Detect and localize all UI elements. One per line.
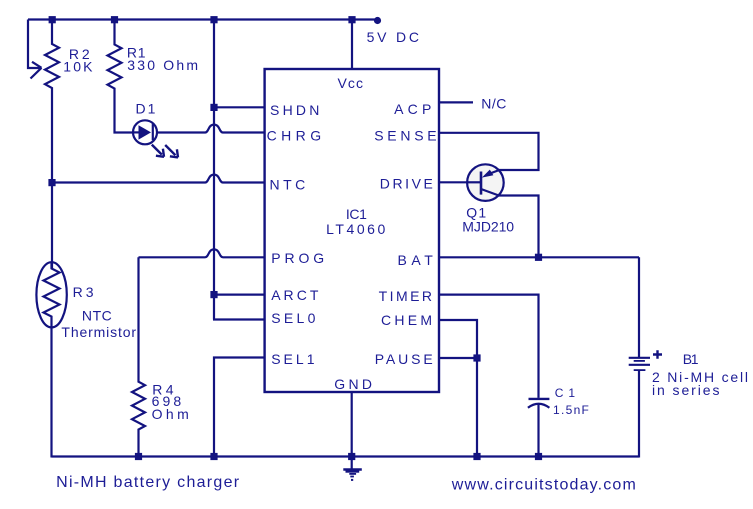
wire PROG with hop over bus [139, 249, 265, 257]
wire battery positive lead [638, 257, 640, 357]
svg-text:ACP: ACP [394, 101, 431, 117]
wire SEL1 to ground [214, 358, 265, 457]
svg-text:N/C: N/C [481, 96, 506, 112]
op-amp IC box U1 LT4060 [265, 69, 439, 392]
node junction dot R2 top [49, 16, 56, 23]
node junction dot bus top [210, 16, 217, 23]
battery B1 [629, 358, 650, 370]
svg-text:1.5nF: 1.5nF [553, 403, 589, 417]
pot wiper arrowhead R2 [31, 62, 42, 79]
svg-text:10K: 10K [63, 59, 93, 75]
wire BAT [439, 256, 639, 258]
LED D1 [133, 120, 157, 144]
svg-text:DRIVE: DRIVE [380, 176, 433, 192]
node junction dot C1 ground [535, 453, 542, 460]
svg-text:IC1: IC1 [346, 206, 367, 222]
wire ACP stub N/C [439, 101, 473, 103]
wire SEL0 [213, 318, 265, 320]
node junction dot R4 ground [135, 453, 142, 460]
wire SENSE to Q1 emitter [439, 133, 539, 170]
wire Q1 collector to BAT [498, 196, 538, 258]
wire C1 to ground rail [537, 404, 539, 457]
node junction dot GND [348, 453, 355, 460]
svg-text:Vcc: Vcc [338, 75, 364, 91]
LED D1 emission arrows [152, 145, 178, 158]
wire SHDN [214, 106, 265, 108]
svg-text:PROG: PROG [271, 250, 324, 266]
wire ground rail [52, 455, 640, 457]
svg-text:GND: GND [334, 376, 372, 392]
svg-text:NTC: NTC [270, 177, 306, 193]
node junction dot ARCT [210, 291, 217, 298]
node junction dot Vcc [348, 16, 355, 23]
svg-text:BAT: BAT [398, 252, 434, 268]
battery plus sign [653, 350, 662, 359]
resistor R1 [108, 20, 134, 133]
svg-text:Thermistor: Thermistor [61, 324, 136, 340]
svg-text:D1: D1 [136, 101, 156, 117]
thermistor R3 [36, 183, 66, 458]
svg-text:B1: B1 [683, 351, 699, 367]
wire NTC with hop over bus [52, 175, 265, 183]
wire PAUSE [439, 357, 477, 359]
node 5V terminal dot [374, 17, 381, 24]
wire TIMER to C1 [439, 295, 539, 398]
wire top 5V rail [28, 18, 378, 20]
svg-text:Ohm: Ohm [152, 406, 189, 422]
svg-text:TIMER: TIMER [379, 288, 432, 304]
node junction dot NTC left [48, 179, 55, 186]
transistor Q1 [467, 164, 504, 201]
wire GND stub [351, 392, 353, 457]
wire Vcc stub [351, 20, 353, 70]
node junction dot SHDN [210, 104, 217, 111]
svg-text:MJD210: MJD210 [462, 219, 514, 235]
wire 5V bus vertical [213, 20, 215, 320]
resistor R4 [132, 257, 145, 456]
wire battery negative lead [638, 370, 640, 457]
svg-text:in series: in series [652, 382, 720, 398]
resistor R2 [45, 20, 59, 183]
wire CHEM to ground [439, 320, 477, 457]
svg-text:NTC: NTC [82, 308, 112, 324]
wire CHRG with hop over bus [157, 125, 265, 133]
wire ARCT [214, 294, 265, 296]
svg-text:330 Ohm: 330 Ohm [127, 57, 198, 73]
wire pot wiper lead R2 [28, 20, 36, 69]
svg-text:www.circuitstoday.com: www.circuitstoday.com [451, 477, 636, 494]
capacitor C1 [528, 399, 550, 408]
node junction dot BAT [535, 254, 542, 261]
wire DRIVE to Q1 base [439, 181, 468, 183]
node junction dot PAUSE [473, 354, 480, 361]
ground symbol [343, 457, 362, 480]
node junction dot R1 top [111, 16, 118, 23]
node junction dot SEL1 ground [210, 453, 217, 460]
node junction dot CHEM ground [473, 453, 480, 460]
